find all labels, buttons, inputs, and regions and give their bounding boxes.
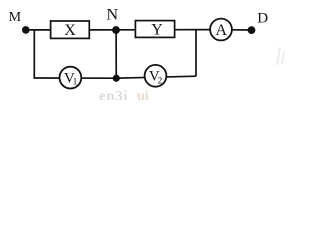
voltmeter V1 circle bbox=[60, 67, 82, 89]
svg-text:ui: ui bbox=[137, 89, 149, 100]
node N dot bbox=[112, 26, 120, 34]
wire left drop to V1 branch bbox=[33, 30, 35, 79]
svg-text:Y: Y bbox=[151, 21, 163, 38]
watermark right edge bbox=[276, 47, 285, 65]
bottom wire bbox=[34, 76, 196, 78]
svg-text:en3i: en3i bbox=[99, 89, 128, 101]
voltmeter V2 circle bbox=[145, 65, 167, 87]
svg-text:A: A bbox=[216, 22, 228, 39]
svg-text:2: 2 bbox=[158, 76, 163, 86]
wire M to X bbox=[26, 29, 51, 31]
svg-text:D: D bbox=[257, 11, 268, 27]
terminal M dot bbox=[22, 26, 30, 34]
svg-text:N: N bbox=[107, 7, 119, 24]
svg-text:1: 1 bbox=[73, 77, 78, 87]
wire Y to ammeter bbox=[175, 29, 211, 31]
svg-text:X: X bbox=[64, 22, 76, 39]
ammeter A circle bbox=[210, 19, 232, 41]
wire right drop to V2 branch bbox=[195, 30, 197, 76]
resistor Y box bbox=[135, 21, 174, 38]
wire X to Y through N bbox=[89, 29, 135, 31]
junction dot bottom bbox=[113, 75, 120, 82]
svg-text:M: M bbox=[9, 10, 22, 25]
terminal D dot bbox=[248, 26, 256, 34]
wire N drop to bottom junction bbox=[115, 30, 117, 78]
resistor X box bbox=[51, 21, 90, 38]
wire ammeter to D bbox=[232, 29, 250, 31]
